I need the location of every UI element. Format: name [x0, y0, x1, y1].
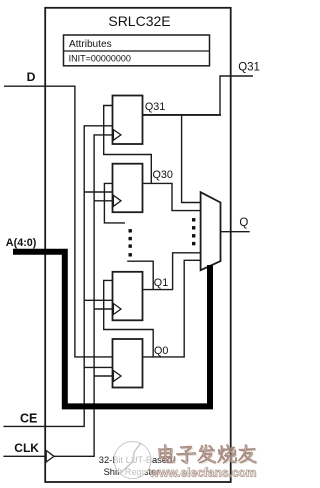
svg-text:Q1: Q1 [154, 277, 168, 289]
svg-text:CE: CE [20, 411, 37, 425]
svg-text:Q0: Q0 [154, 345, 168, 357]
svg-text:SRLC32E: SRLC32E [108, 13, 170, 29]
svg-text:CLK: CLK [14, 441, 39, 455]
svg-text:Q: Q [239, 217, 248, 229]
svg-text:A(4:0): A(4:0) [6, 237, 37, 249]
svg-text:www.elecfans.com: www.elecfans.com [149, 466, 257, 480]
svg-text:Q30: Q30 [153, 169, 173, 181]
svg-text:Attributes: Attributes [69, 39, 112, 50]
svg-text:INIT=00000000: INIT=00000000 [69, 54, 131, 64]
svg-text:D: D [27, 70, 36, 84]
svg-text:Q31: Q31 [145, 101, 165, 113]
svg-text:Q31: Q31 [238, 62, 260, 74]
